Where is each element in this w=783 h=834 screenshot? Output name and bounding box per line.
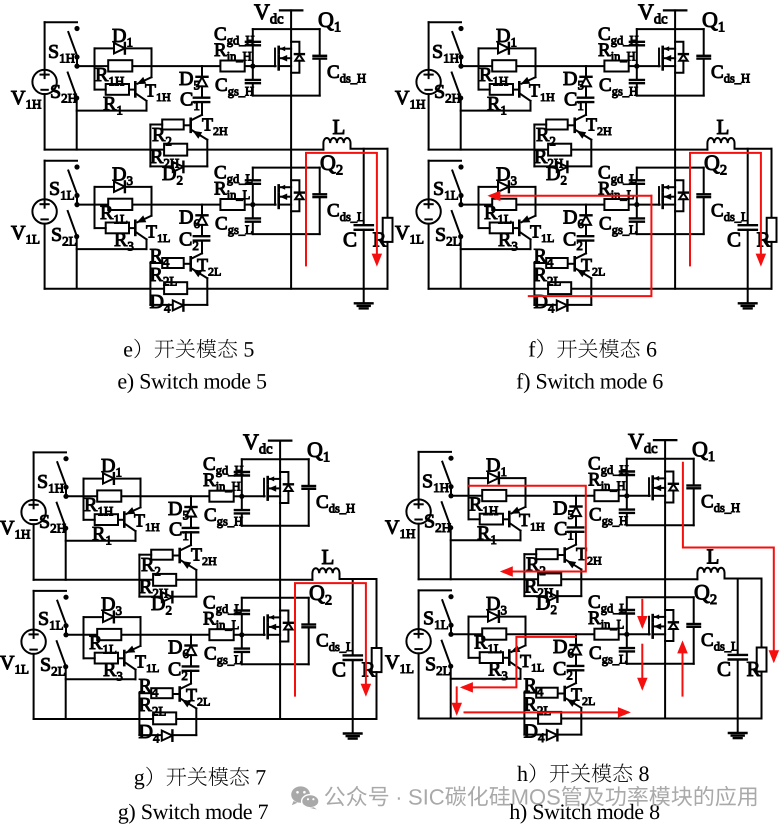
current path via Cds_H to load <box>683 463 774 660</box>
current path loop via Q2 <box>306 153 377 266</box>
watermark wechat icon <box>291 786 319 809</box>
circuit cell f (switch mode 6) <box>395 0 777 316</box>
caption h CJK <box>517 763 648 783</box>
current path loop via Q2 <box>295 583 366 696</box>
caption g EN <box>119 804 268 824</box>
current path via D4 R2L <box>491 195 652 197</box>
current path via D1 C1 T2H <box>469 486 586 572</box>
caption f CJK <box>529 339 656 359</box>
caption e CJK <box>124 339 253 359</box>
current path via C2 D6 R3 <box>463 637 576 688</box>
caption e EN <box>118 373 266 393</box>
current path down S2L <box>456 687 458 712</box>
red current path overlay f <box>487 153 766 296</box>
circuit cell g (switch mode 7) <box>0 429 382 746</box>
current path along bottom rail <box>465 711 628 713</box>
current arrow Cgd_L <box>641 600 643 626</box>
caption g CJK <box>135 767 266 790</box>
current path loop via Q2 <box>690 153 761 266</box>
current arrow channel Q2 up <box>682 644 684 696</box>
current arrow Cgs_L <box>641 645 643 688</box>
caption h EN <box>510 804 660 824</box>
circuit cell e (switch mode 5) <box>11 0 393 316</box>
red current path overlay h <box>452 463 780 718</box>
watermark text <box>325 786 756 807</box>
red current path overlay g <box>295 583 371 697</box>
caption f EN <box>517 373 663 393</box>
circuit cell h (switch mode 8) <box>385 429 767 746</box>
red current path overlay e <box>306 153 382 267</box>
